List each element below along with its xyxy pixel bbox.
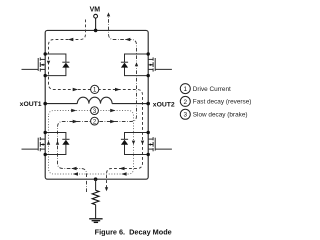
body diode D2 with loop wire: [121, 54, 148, 76]
body diode D4 with loop wire: [121, 133, 148, 155]
svg-text:Drive Current: Drive Current: [193, 86, 231, 93]
node: Q4 drain junction: [147, 131, 150, 134]
body diode D1 with loop wire: [45, 54, 69, 76]
transistor Q2 (high-side right MOSFET): [148, 57, 172, 71]
resistor RS (current sense): [92, 190, 99, 204]
node: Q2 drain junction: [147, 52, 150, 55]
transistor Q1 (high-side left MOSFET): [22, 57, 46, 71]
ground symbol: [89, 219, 102, 223]
svg-text:Fast decay (reverse): Fast decay (reverse): [193, 99, 252, 106]
node: Q3 drain junction: [44, 131, 47, 134]
svg-text:xOUT2: xOUT2: [153, 101, 175, 108]
body diode D3 with loop wire: [45, 133, 69, 155]
arrows on path 1: [47, 38, 144, 192]
node: Q1 source junction: [44, 74, 47, 77]
svg-text:xOUT1: xOUT1: [20, 101, 42, 108]
current path 1: drive current (dashed): [49, 20, 143, 189]
wire: bottom rail to sense resistor: [95, 179, 97, 190]
node: bottom rail junction to sense resistor: [94, 177, 98, 181]
marker: circled 1 on drive-current path: [91, 85, 99, 93]
svg-text:Slow decay (brake): Slow decay (brake): [193, 112, 248, 119]
legend marker 3: [180, 109, 190, 119]
wire: motor winding to xOUT2: [112, 103, 148, 105]
legend marker 1: [180, 84, 190, 94]
arrows on path 2: [56, 12, 138, 170]
transistor Q3 (low-side left MOSFET): [22, 137, 46, 151]
wire: xOUT1 to motor winding: [45, 103, 77, 105]
marker: circled 3 on slow-decay path: [91, 107, 99, 115]
wire: H-bridge outer frame (top rail / left leg / right leg / bottom rail): [45, 30, 148, 179]
arrows on path 3: [47, 109, 135, 176]
svg-text:VM: VM: [90, 6, 101, 13]
node xOUT2 junction dot: [146, 102, 150, 106]
transistor Q4 (low-side right MOSFET): [148, 137, 172, 151]
svg-text:2: 2: [184, 99, 188, 106]
legend marker 2: [180, 96, 190, 106]
node xOUT1 junction dot: [43, 102, 47, 106]
current path 3: slow decay loop (dotted): [49, 111, 134, 175]
inductor L (motor winding): [77, 97, 112, 103]
current path 2: fast decay (dash-dot): [58, 14, 137, 192]
node: Q3 source junction: [44, 153, 47, 156]
svg-text:3: 3: [184, 112, 188, 119]
node: Q2 source junction: [147, 74, 150, 77]
svg-text:Figure 6. Decay Mode: Figure 6. Decay Mode: [95, 228, 172, 237]
svg-text:1: 1: [184, 86, 188, 93]
node VM: supply terminal circle, lead wire and junction dot: [94, 14, 98, 32]
node: Q4 source junction: [147, 153, 150, 156]
marker: circled 2 on fast-decay path: [91, 117, 99, 125]
node: Q1 drain junction: [44, 52, 47, 55]
wire: sense resistor to ground: [95, 205, 97, 219]
